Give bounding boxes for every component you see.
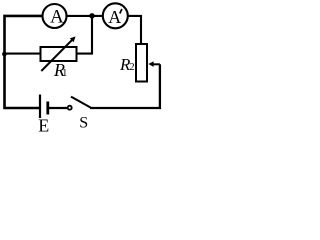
wire: from left junction to R1 left terminal (3, 53, 39, 55)
wire: top between ammeter A and ammeter A' (67, 15, 103, 17)
resistor R2 (potentiometer body) (136, 44, 147, 82)
svg-text:1: 1 (62, 68, 67, 79)
svg-text:S: S (79, 114, 88, 131)
svg-text:A: A (108, 7, 121, 27)
wire: left frame (top-left corner, left vertical, bottom-left run to battery) (5, 16, 43, 108)
wire: top from A' to R2 feed corner, then down into R2 top (128, 16, 141, 44)
ammeter A' (103, 3, 128, 28)
wire: right vertical from wiper down to bottom wire (90, 64, 160, 108)
wire: branch vertical from top junction down to R1 output (76, 16, 92, 54)
rheostat arrow across R1 (41, 39, 73, 71)
R2 slider arrow (wiper) (148, 61, 153, 67)
node: junction dot on left wire at R1 branch (2, 52, 7, 57)
ammeter A (43, 4, 67, 28)
svg-text:A: A (50, 7, 64, 28)
battery E: long positive plate (39, 95, 41, 119)
switch S: open blade (71, 97, 91, 108)
svg-text:E: E (38, 115, 49, 132)
switch S: pivot circle (68, 106, 72, 110)
resistor R1 (rheostat body) (41, 47, 77, 61)
battery E: short thick negative plate (46, 102, 49, 115)
node: junction dot on top wire at branch point (89, 13, 94, 18)
wire: from battery to switch pivot (49, 107, 68, 109)
svg-text:2: 2 (129, 62, 134, 73)
